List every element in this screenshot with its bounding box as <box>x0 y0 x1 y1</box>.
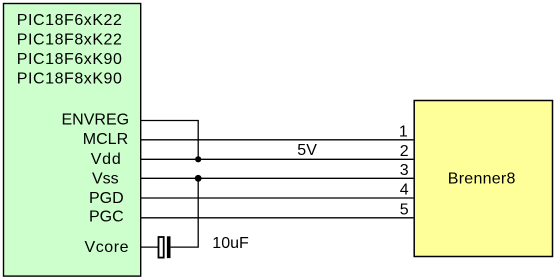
junction dot on Vss wire <box>195 175 202 182</box>
svg-text:5: 5 <box>400 201 409 218</box>
svg-text:PIC18F8xK90: PIC18F8xK90 <box>17 70 123 87</box>
svg-text:2: 2 <box>400 143 409 160</box>
svg-text:ENVREG: ENVREG <box>62 112 130 129</box>
svg-text:Brenner8: Brenner8 <box>448 171 516 188</box>
connector U2 Brenner8 body <box>414 101 552 257</box>
wire MCLR to Brenner8 pin 1 <box>141 139 413 141</box>
svg-text:1: 1 <box>399 123 408 140</box>
svg-text:3: 3 <box>400 162 409 179</box>
IC U1 PIC18F body <box>4 4 141 277</box>
wire Vss junction down to capacitor <box>171 178 199 247</box>
wire PGC to Brenner8 pin 5 <box>141 217 413 219</box>
svg-text:Vdd: Vdd <box>91 151 122 168</box>
capacitor C1 left plate (hollow) <box>159 237 164 258</box>
wire ENVREG to Vdd net (down at x=198) <box>141 121 198 160</box>
svg-text:Vss: Vss <box>92 170 119 187</box>
svg-text:4: 4 <box>400 182 409 199</box>
wire Vcore to capacitor <box>141 246 158 248</box>
svg-text:PIC18F8xK22: PIC18F8xK22 <box>17 32 123 49</box>
svg-text:MCLR: MCLR <box>83 131 128 148</box>
wire Vdd to Brenner8 pin 2 (5V net) <box>141 158 413 160</box>
svg-text:PGC: PGC <box>89 209 124 226</box>
svg-text:PIC18F6xK22: PIC18F6xK22 <box>17 12 123 29</box>
wire Vss to Brenner8 pin 3 <box>141 177 413 179</box>
capacitor C1 right plate (solid) <box>167 236 171 258</box>
svg-text:PGD: PGD <box>89 190 124 207</box>
junction dot on Vdd wire <box>195 156 201 162</box>
svg-text:5V: 5V <box>297 142 317 159</box>
svg-text:10uF: 10uF <box>212 235 249 252</box>
svg-text:PIC18F6xK90: PIC18F6xK90 <box>17 51 123 68</box>
svg-text:Vcore: Vcore <box>85 239 130 256</box>
wire PGD to Brenner8 pin 4 <box>141 197 413 199</box>
